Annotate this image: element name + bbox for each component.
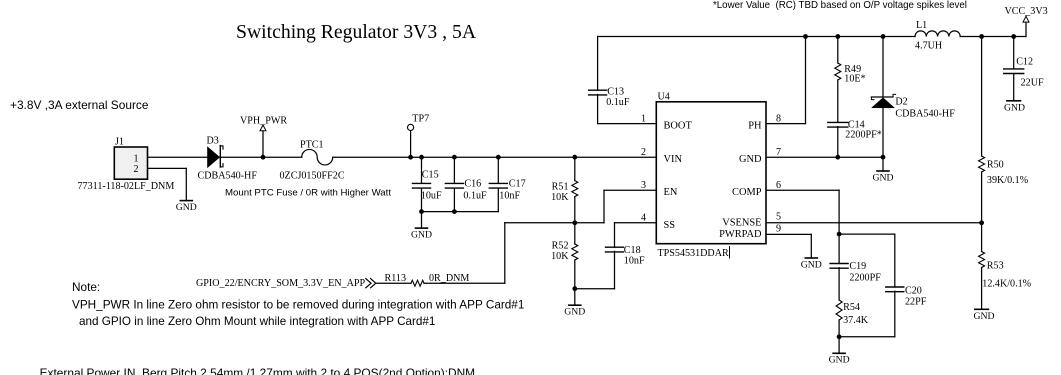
svg-text:10nF: 10nF [499, 191, 520, 202]
svg-text:5: 5 [776, 211, 781, 222]
svg-text:L1: L1 [916, 20, 927, 31]
svg-text:J1: J1 [115, 137, 124, 148]
svg-text:GPIO_22/ENCRY_SOM_3.3V_EN_APP: GPIO_22/ENCRY_SOM_3.3V_EN_APP [196, 278, 365, 289]
svg-text:PH: PH [748, 121, 762, 132]
svg-text:C18: C18 [624, 245, 641, 256]
svg-text:8: 8 [776, 113, 781, 124]
svg-text:C17: C17 [509, 179, 526, 190]
svg-text:D3: D3 [207, 136, 219, 147]
svg-text:4.7UH: 4.7UH [915, 41, 942, 52]
svg-text:D2: D2 [895, 96, 907, 107]
svg-text:VSENSE: VSENSE [722, 218, 761, 229]
svg-text:GND: GND [829, 355, 850, 366]
svg-text:GND: GND [1004, 102, 1025, 113]
svg-text:and GPIO in line Zero Ohm Moun: and GPIO in line Zero Ohm Mount while in… [79, 315, 435, 328]
svg-text:1: 1 [641, 113, 646, 124]
svg-text:10K: 10K [551, 192, 569, 203]
svg-text:10K: 10K [551, 251, 569, 262]
svg-text:TP7: TP7 [412, 114, 429, 125]
svg-text:TPS54531DDAR: TPS54531DDAR [658, 248, 729, 259]
svg-text:GND: GND [176, 202, 197, 213]
svg-text:PTC1: PTC1 [300, 140, 324, 151]
svg-text:22PF: 22PF [905, 296, 927, 307]
svg-text:10uF: 10uF [421, 190, 442, 201]
svg-text:10nF: 10nF [624, 255, 645, 266]
svg-text:VPH_PWR: VPH_PWR [240, 116, 287, 127]
svg-text:7: 7 [776, 147, 781, 158]
svg-text:GND: GND [411, 229, 432, 240]
svg-text:2200PF*: 2200PF* [845, 130, 881, 141]
svg-text:0R_DNM: 0R_DNM [429, 273, 469, 284]
svg-text:C19: C19 [849, 261, 866, 272]
svg-text:R53: R53 [987, 261, 1004, 272]
svg-text:R50: R50 [987, 160, 1004, 171]
svg-text:6: 6 [776, 180, 781, 191]
svg-text:2: 2 [641, 147, 646, 158]
svg-text:PWRPAD: PWRPAD [719, 229, 762, 240]
svg-text:C13: C13 [607, 87, 624, 98]
svg-text:37.4K: 37.4K [843, 315, 869, 326]
svg-text:GND: GND [564, 307, 585, 318]
svg-text:R113: R113 [385, 273, 407, 284]
svg-text:CDBA540-HF: CDBA540-HF [895, 109, 955, 120]
svg-text:C15: C15 [422, 170, 439, 181]
svg-text:77311-118-02LF_DNM: 77311-118-02LF_DNM [78, 181, 175, 192]
svg-text:GND: GND [873, 172, 894, 183]
svg-text:R54: R54 [843, 302, 860, 313]
svg-text:COMP: COMP [732, 187, 762, 198]
svg-text:VPH_PWR In line Zero ohm resis: VPH_PWR In line Zero ohm resistor to be … [72, 299, 524, 312]
svg-text:EN: EN [664, 187, 678, 198]
svg-text:1: 1 [133, 153, 138, 164]
svg-text:SS: SS [664, 220, 676, 231]
svg-text:0.1uF: 0.1uF [606, 97, 630, 108]
svg-text:VCC_3V3: VCC_3V3 [1005, 6, 1048, 17]
svg-text:Note:: Note: [72, 280, 100, 294]
svg-text:C16: C16 [464, 179, 481, 190]
svg-text:0.1uF: 0.1uF [463, 191, 487, 202]
svg-text:GND: GND [974, 311, 995, 322]
svg-text:BOOT: BOOT [664, 121, 693, 132]
svg-text:12.4K/0.1%: 12.4K/0.1% [982, 279, 1031, 290]
svg-text:U4: U4 [658, 92, 670, 103]
svg-text:CDBA540-HF: CDBA540-HF [198, 171, 258, 182]
svg-text:+3.8V ,3A external Source: +3.8V ,3A external Source [10, 98, 149, 112]
svg-text:C20: C20 [905, 286, 922, 297]
svg-text:C12: C12 [1016, 57, 1033, 68]
svg-text:Mount PTC Fuse / 0R with Highe: Mount PTC Fuse / 0R with Higher Watt [225, 188, 391, 199]
svg-text:VIN: VIN [664, 154, 683, 165]
svg-text:GND: GND [739, 154, 762, 165]
svg-text:39K/0.1%: 39K/0.1% [987, 175, 1029, 186]
svg-text:0ZCJ0150FF2C: 0ZCJ0150FF2C [280, 171, 345, 182]
svg-text:10E*: 10E* [844, 74, 865, 85]
svg-text:2200PF: 2200PF [849, 272, 881, 283]
svg-text:4: 4 [641, 213, 646, 224]
svg-text:2: 2 [133, 164, 138, 175]
svg-text:22UF: 22UF [1021, 78, 1044, 89]
svg-text:Switching Regulator 3V3 , 5A: Switching Regulator 3V3 , 5A [236, 21, 477, 43]
svg-text:External Power IN, Berg Pitch: External Power IN, Berg Pitch 2.54mm /1.… [40, 366, 476, 375]
svg-text:3: 3 [641, 180, 646, 191]
svg-text:GND: GND [801, 259, 822, 270]
svg-text:9: 9 [776, 223, 781, 234]
svg-text:*Lower Value (RC) TBD based o: *Lower Value (RC) TBD based on O/P volta… [713, 0, 967, 11]
